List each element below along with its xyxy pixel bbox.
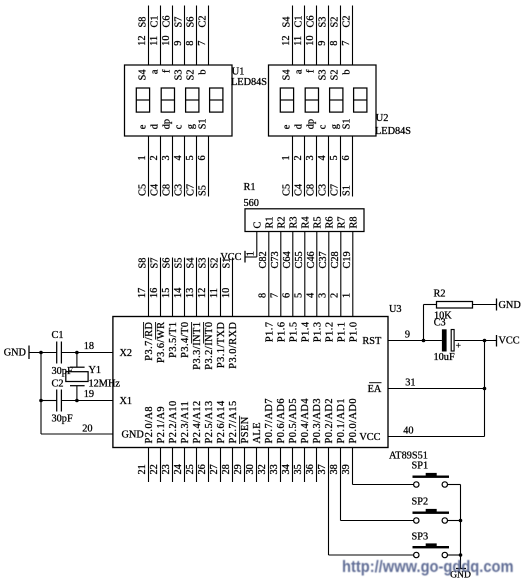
- wire U2 top pin 9 net S3: [328, 6, 330, 66]
- svg-text:X1: X1: [120, 396, 133, 407]
- wire GND to C1 left plate: [29, 352, 57, 354]
- svg-text:5: 5: [329, 155, 340, 160]
- svg-text:11: 11: [149, 36, 160, 46]
- wire U3 RST pin 9: [388, 340, 442, 342]
- wire U3 pin 36 stub: [316, 448, 318, 483]
- U1 digit cell 3: [186, 88, 199, 112]
- svg-text:C28: C28: [330, 251, 341, 268]
- U1 digit cell 1: [136, 88, 149, 112]
- svg-text:dp: dp: [306, 119, 317, 129]
- svg-text:C2: C2: [198, 15, 209, 27]
- junction X2 net at GND bus: [39, 351, 43, 355]
- svg-text:C6: C6: [162, 15, 173, 27]
- power port GND (buttons): [456, 568, 466, 570]
- svg-text:36: 36: [305, 464, 316, 474]
- wire U3 VCC pin 40: [388, 436, 485, 438]
- wire U3 pin 21 stub: [148, 448, 150, 483]
- svg-text:C37: C37: [318, 251, 329, 268]
- svg-text:P2.2/A10: P2.2/A10: [168, 400, 179, 443]
- svg-text:X2: X2: [120, 348, 133, 359]
- wire R1 pin R5 net C46 to U3 pin 4: [316, 232, 318, 317]
- wire U1 top pin 8 net S6: [196, 6, 198, 66]
- svg-text:12: 12: [197, 288, 208, 298]
- wire R1 pin R2 net C73 to U3 pin 7: [280, 232, 282, 317]
- junction SP2 at GND bus: [459, 519, 463, 523]
- svg-text:C4: C4: [150, 184, 161, 196]
- wire U1 top pin 9 net S7: [184, 6, 186, 66]
- svg-text:P0.7/AD7: P0.7/AD7: [264, 398, 275, 443]
- svg-text:P0.3/AD3: P0.3/AD3: [312, 398, 323, 443]
- svg-text:+: +: [456, 342, 461, 352]
- svg-text:P0.4/AD4: P0.4/AD4: [300, 398, 311, 443]
- svg-text:R5: R5: [312, 216, 323, 228]
- junction VCC bus at EA: [483, 387, 487, 391]
- svg-text:GND: GND: [122, 429, 145, 440]
- svg-text:b: b: [342, 70, 353, 75]
- svg-text:S3: S3: [174, 70, 185, 81]
- svg-text:6: 6: [341, 155, 352, 160]
- svg-text:C1: C1: [52, 330, 64, 341]
- svg-text:23: 23: [161, 464, 172, 474]
- svg-text:C55: C55: [294, 251, 305, 268]
- svg-text:11: 11: [209, 288, 220, 298]
- svg-text:S6: S6: [186, 17, 197, 28]
- svg-text:10: 10: [161, 36, 172, 46]
- svg-text:f: f: [162, 69, 173, 73]
- svg-text:P3.4/T0: P3.4/T0: [180, 322, 191, 358]
- wire U3 pin 28 stub: [232, 448, 234, 483]
- wire C2 to U3 X1 pin 19: [61, 400, 113, 402]
- resistor R2: [437, 302, 473, 309]
- svg-text:S1: S1: [198, 118, 209, 129]
- svg-text:R3: R3: [288, 216, 299, 228]
- svg-text:g: g: [330, 124, 341, 129]
- wire net S1 to U3 pin 10: [232, 258, 234, 317]
- svg-text:P3.7/RD: P3.7/RD: [144, 321, 155, 360]
- LED display U1: [125, 65, 233, 136]
- svg-text:U1: U1: [232, 66, 245, 77]
- svg-text:GND: GND: [499, 300, 521, 311]
- svg-text:7: 7: [269, 293, 280, 298]
- svg-text:R8: R8: [348, 216, 359, 228]
- svg-text:37: 37: [317, 464, 328, 474]
- U2 digit cell 2: [305, 88, 318, 112]
- wire U3 pin 22 stub: [160, 448, 162, 483]
- wire U3 pin 24 stub: [184, 448, 186, 483]
- wire U3 pin to SP2: [340, 448, 342, 521]
- wire U2 bottom pin 4 net C3: [328, 136, 330, 197]
- svg-text:P2.4/A12: P2.4/A12: [192, 400, 203, 443]
- svg-text:30pF: 30pF: [52, 414, 73, 425]
- wire GND bus vertical: [40, 353, 42, 435]
- svg-text:12: 12: [137, 36, 148, 46]
- svg-text:P3.2/INT0: P3.2/INT0: [204, 322, 215, 370]
- svg-text:P3.6/WR: P3.6/WR: [156, 322, 167, 364]
- wire C3 to VCC bus: [455, 340, 497, 342]
- svg-text:PSEN: PSEN: [240, 416, 251, 443]
- wire U2 bottom pin 3 net C8: [316, 136, 318, 197]
- power port VCC (R1 common): [244, 251, 246, 263]
- svg-text:C7: C7: [330, 184, 341, 196]
- svg-text:S2: S2: [186, 70, 197, 81]
- pushbutton SP2: [413, 512, 450, 514]
- svg-text:f: f: [306, 69, 317, 73]
- wire R1 pin R6 net C37 to U3 pin 3: [328, 232, 330, 317]
- wire U2 bottom pin 5 net C7: [340, 136, 342, 197]
- wire R1 pin R1 net C82 to U3 pin 8: [268, 232, 270, 317]
- wire U1 bottom pin 5 net C7: [196, 136, 198, 197]
- svg-text:R7: R7: [336, 216, 347, 228]
- svg-text:22: 22: [149, 464, 160, 474]
- junction X2 net at crystal: [75, 351, 79, 355]
- svg-text:VCC: VCC: [499, 336, 520, 347]
- svg-text:9: 9: [405, 330, 410, 341]
- junction X1 net at crystal: [75, 399, 79, 403]
- svg-text:P3.0/RXD: P3.0/RXD: [228, 321, 239, 368]
- wire R1 common pin: [256, 232, 258, 258]
- svg-text:S7: S7: [150, 258, 161, 269]
- U2 digit cell 1: [280, 88, 293, 112]
- wire U3 pin 35 stub: [304, 448, 306, 483]
- svg-text:GND: GND: [4, 348, 27, 359]
- svg-text:35: 35: [293, 464, 304, 474]
- svg-text:7: 7: [197, 41, 208, 46]
- wire R1 pin R4 net C55 to U3 pin 5: [304, 232, 306, 317]
- svg-text:P3.3/INT1: P3.3/INT1: [192, 322, 203, 370]
- svg-text:5: 5: [293, 293, 304, 298]
- svg-text:e: e: [282, 124, 293, 129]
- junction VCC bus top: [483, 339, 487, 343]
- svg-text:P2.1/A9: P2.1/A9: [156, 406, 167, 444]
- svg-text:P1.5: P1.5: [288, 322, 299, 343]
- svg-text:10uF: 10uF: [434, 352, 455, 363]
- wire GND bus to C2 left plate: [41, 400, 57, 402]
- svg-text:C2: C2: [52, 379, 64, 390]
- svg-text:e: e: [138, 124, 149, 129]
- svg-text:U3: U3: [389, 304, 402, 315]
- svg-text:P3.1/TXD: P3.1/TXD: [216, 321, 227, 368]
- svg-text:C1: C1: [150, 15, 161, 27]
- svg-text:39: 39: [341, 464, 352, 474]
- svg-text:dp: dp: [162, 119, 173, 129]
- U1 digit cell 2: [161, 88, 174, 112]
- svg-text:16: 16: [149, 288, 160, 298]
- svg-text:c: c: [174, 124, 185, 129]
- svg-text:13: 13: [185, 288, 196, 298]
- svg-text:P1.7: P1.7: [264, 322, 275, 343]
- svg-text:P1.4: P1.4: [300, 322, 311, 343]
- svg-text:40: 40: [403, 426, 413, 437]
- power port GND (R2): [496, 299, 498, 311]
- svg-text:4: 4: [305, 293, 316, 298]
- wire U1 bottom pin 3 net C8: [172, 136, 174, 197]
- svg-text:17: 17: [137, 288, 148, 298]
- svg-text:S8: S8: [138, 17, 149, 28]
- svg-text:C7: C7: [186, 184, 197, 196]
- svg-text:S4: S4: [138, 70, 149, 81]
- svg-text:S4: S4: [186, 258, 197, 269]
- crystal Y1: [70, 366, 85, 368]
- junction RST net: [422, 339, 426, 343]
- svg-text:4: 4: [173, 155, 184, 160]
- wire R1 pin R8 net C19 to U3 pin 1: [352, 232, 354, 317]
- svg-text:R1: R1: [264, 216, 275, 228]
- junction X1 net at GND bus: [39, 399, 43, 403]
- wire U2 bottom pin 1 net C5: [292, 136, 294, 197]
- svg-text:32: 32: [257, 464, 268, 474]
- wire U1 top pin 10 net C6: [172, 6, 174, 66]
- svg-text:33: 33: [269, 464, 280, 474]
- svg-text:P2.6/A14: P2.6/A14: [216, 400, 227, 443]
- svg-text:c: c: [318, 124, 329, 129]
- wire net S5 to U3 pin 14: [184, 258, 186, 317]
- wire U3 pin 25 stub: [196, 448, 198, 483]
- wire U2 top pin 7 net C2: [352, 6, 354, 66]
- svg-text:P2.3/A11: P2.3/A11: [180, 401, 191, 444]
- svg-text:LED84S: LED84S: [375, 126, 411, 137]
- svg-text:P0.2/AD2: P0.2/AD2: [324, 398, 335, 443]
- wire U1 top pin 11 net C1: [160, 6, 162, 66]
- svg-text:1: 1: [281, 155, 292, 160]
- wire U3 pin 34 stub: [292, 448, 294, 483]
- svg-text:SP2: SP2: [412, 497, 429, 508]
- power port VCC (right): [496, 335, 498, 347]
- capacitor C2: [56, 390, 58, 412]
- capacitor C1: [56, 342, 58, 364]
- pushbutton SP1: [413, 476, 450, 478]
- wire RST to R2: [423, 305, 425, 341]
- svg-text:26: 26: [197, 464, 208, 474]
- pushbutton SP3: [413, 546, 450, 548]
- svg-text:12: 12: [281, 36, 292, 46]
- svg-text:14: 14: [173, 288, 184, 298]
- svg-text:g: g: [186, 124, 197, 129]
- wire U3 pin 30 stub: [256, 448, 258, 483]
- svg-text:LED84S: LED84S: [231, 77, 267, 88]
- svg-text:EA: EA: [368, 384, 382, 395]
- svg-text:5: 5: [185, 155, 196, 160]
- svg-text:S2: S2: [330, 17, 341, 28]
- svg-text:S1: S1: [222, 258, 233, 269]
- U2 digit cell 4: [354, 88, 367, 112]
- capacitor C3 (electrolytic): [442, 329, 447, 351]
- svg-text:R4: R4: [300, 216, 311, 228]
- wire U2 top pin 12 net S4: [292, 6, 294, 66]
- svg-text:P1.0: P1.0: [348, 322, 359, 343]
- svg-text:S2: S2: [330, 70, 341, 81]
- svg-text:6: 6: [281, 293, 292, 298]
- svg-text:P2.0/A8: P2.0/A8: [144, 406, 155, 444]
- U2 digit cell 3: [330, 88, 343, 112]
- svg-text:11: 11: [293, 36, 304, 46]
- svg-text:8: 8: [257, 293, 268, 298]
- svg-text:C8: C8: [162, 184, 173, 196]
- svg-text:C5: C5: [138, 184, 149, 196]
- wire net S4 to U3 pin 13: [196, 258, 198, 317]
- wire U2 top pin 11 net C1: [304, 6, 306, 66]
- svg-text:4: 4: [317, 155, 328, 160]
- svg-text:10: 10: [221, 288, 232, 298]
- svg-text:P0.0/AD0: P0.0/AD0: [348, 398, 359, 443]
- svg-text:2: 2: [149, 155, 160, 160]
- svg-text:15: 15: [161, 288, 172, 298]
- svg-text:18: 18: [84, 341, 94, 352]
- svg-text:S3: S3: [198, 258, 209, 269]
- wire R1 pin R3 net C64 to U3 pin 6: [292, 232, 294, 317]
- wire R2 to GND: [473, 304, 497, 306]
- wire net S8 to U3 pin 17: [148, 258, 150, 317]
- wire U1 top pin 12 net S8: [148, 6, 150, 66]
- svg-text:C4: C4: [294, 184, 305, 196]
- svg-text:3: 3: [305, 155, 316, 160]
- svg-text:d: d: [150, 123, 161, 129]
- svg-text:1: 1: [137, 155, 148, 160]
- U1 digit cell 4: [210, 88, 223, 112]
- wire U3 pin 26 stub: [208, 448, 210, 483]
- svg-text:7: 7: [341, 41, 352, 46]
- wire net S2 to U3 pin 11: [220, 258, 222, 317]
- svg-text:12MHz: 12MHz: [89, 379, 121, 390]
- svg-text:P1.3: P1.3: [312, 322, 323, 343]
- wire U1 bottom pin 6 net S5: [208, 136, 210, 197]
- svg-text:Y1: Y1: [89, 365, 102, 376]
- svg-text:1: 1: [341, 293, 352, 298]
- svg-text:SP3: SP3: [412, 532, 429, 543]
- svg-text:C1: C1: [294, 15, 305, 27]
- wire U1 bottom pin 1 net C5: [148, 136, 150, 197]
- wire crystal top stub: [76, 353, 78, 368]
- svg-text:S4: S4: [282, 70, 293, 81]
- svg-text:R6: R6: [324, 216, 335, 228]
- svg-text:6: 6: [197, 155, 208, 160]
- svg-text:C6: C6: [306, 15, 317, 27]
- svg-text:P2.7/A15: P2.7/A15: [228, 400, 239, 443]
- svg-text:2: 2: [329, 293, 340, 298]
- svg-text:31: 31: [405, 378, 415, 389]
- svg-text:C82: C82: [258, 251, 269, 268]
- svg-text:S5: S5: [198, 185, 209, 196]
- svg-text:1: 1: [245, 251, 256, 256]
- wire button GND bus: [460, 485, 462, 569]
- svg-text:C2: C2: [342, 15, 353, 27]
- svg-text:RST: RST: [362, 336, 382, 347]
- svg-text:25: 25: [185, 464, 196, 474]
- svg-text:S6: S6: [162, 258, 173, 269]
- wire net S6 to U3 pin 15: [172, 258, 174, 317]
- wire U3 EA pin 31: [388, 388, 485, 390]
- svg-text:VCC: VCC: [359, 432, 380, 443]
- svg-text:9: 9: [317, 41, 328, 46]
- svg-text:C: C: [252, 222, 263, 229]
- svg-text:P1.6: P1.6: [276, 322, 287, 343]
- wire net S7 to U3 pin 16: [160, 258, 162, 317]
- svg-text:C3: C3: [434, 318, 446, 329]
- wire U1 top pin 7 net C2: [208, 6, 210, 66]
- svg-text:24: 24: [173, 464, 184, 474]
- svg-text:S7: S7: [174, 17, 185, 28]
- svg-text:S5: S5: [174, 258, 185, 269]
- svg-text:P1.2: P1.2: [324, 322, 335, 343]
- wire U3 pin 27 stub: [220, 448, 222, 483]
- svg-text:U2: U2: [376, 113, 389, 124]
- wire U3 pin 23 stub: [172, 448, 174, 483]
- svg-text:8: 8: [185, 41, 196, 46]
- wire U2 bottom pin 6 net S1: [352, 136, 354, 197]
- resistor network R1: [245, 209, 364, 232]
- svg-text:20: 20: [82, 424, 92, 435]
- LED display U2: [269, 65, 377, 136]
- svg-text:P0.5/AD5: P0.5/AD5: [288, 398, 299, 443]
- svg-text:C3: C3: [318, 184, 329, 196]
- svg-text:R2: R2: [276, 216, 287, 228]
- svg-text:29: 29: [233, 464, 244, 474]
- svg-text:S1: S1: [342, 185, 353, 196]
- svg-text:P3.5/T1: P3.5/T1: [168, 322, 179, 358]
- wire R1 pin R7 net C28 to U3 pin 2: [340, 232, 342, 317]
- wire U3 pin to SP1: [352, 448, 354, 485]
- wire U1 bottom pin 2 net C4: [160, 136, 162, 197]
- junction SP3 at GND bus: [459, 553, 463, 557]
- svg-text:C8: C8: [306, 184, 317, 196]
- svg-text:C19: C19: [342, 251, 353, 268]
- svg-text:C64: C64: [282, 251, 293, 268]
- svg-text:C3: C3: [174, 184, 185, 196]
- wire U3 pin 33 stub: [280, 448, 282, 483]
- svg-text:30: 30: [245, 464, 256, 474]
- svg-text:S2: S2: [210, 258, 221, 269]
- svg-text:C46: C46: [306, 251, 317, 268]
- watermark text go-gddq.com: [342, 557, 514, 577]
- wire U2 top pin 8 net S2: [340, 6, 342, 66]
- wire U1 bottom pin 4 net C3: [184, 136, 186, 197]
- svg-text:28: 28: [221, 464, 232, 474]
- svg-text:S1: S1: [342, 118, 353, 129]
- wire C1 to U3 X2 pin 18: [61, 352, 113, 354]
- svg-text:10: 10: [305, 36, 316, 46]
- svg-text:ALE: ALE: [252, 422, 263, 444]
- wire GND bus to U3 pin 20: [41, 433, 113, 435]
- svg-text:d: d: [294, 123, 305, 129]
- svg-text:S4: S4: [282, 17, 293, 28]
- svg-text:2: 2: [293, 155, 304, 160]
- svg-text:SP1: SP1: [412, 461, 429, 472]
- svg-text:P0.1/AD1: P0.1/AD1: [336, 398, 347, 443]
- svg-text:S3: S3: [318, 17, 329, 28]
- svg-text:P1.1: P1.1: [336, 322, 347, 343]
- svg-text:27: 27: [209, 464, 220, 474]
- svg-text:R2: R2: [434, 289, 446, 300]
- svg-text:8: 8: [329, 41, 340, 46]
- svg-text:P2.5/A13: P2.5/A13: [204, 400, 215, 443]
- svg-text:38: 38: [329, 464, 340, 474]
- wire U3 pin 32 stub: [268, 448, 270, 483]
- svg-text:S8: S8: [138, 258, 149, 269]
- svg-text:C5: C5: [282, 184, 293, 196]
- wire U3 pin 29 stub: [244, 448, 246, 483]
- svg-text:3: 3: [161, 155, 172, 160]
- wire U3 pin to SP3: [328, 448, 330, 556]
- svg-text:19: 19: [84, 389, 94, 400]
- svg-text:3: 3: [317, 293, 328, 298]
- svg-text:a: a: [150, 69, 161, 74]
- svg-text:R1: R1: [244, 182, 256, 193]
- svg-text:S3: S3: [318, 70, 329, 81]
- svg-text:560: 560: [244, 198, 259, 209]
- MCU U3 AT89S51: [113, 317, 388, 448]
- wire crystal bottom stub: [76, 386, 78, 401]
- svg-text:9: 9: [173, 41, 184, 46]
- wire VCC bus vertical: [484, 341, 486, 437]
